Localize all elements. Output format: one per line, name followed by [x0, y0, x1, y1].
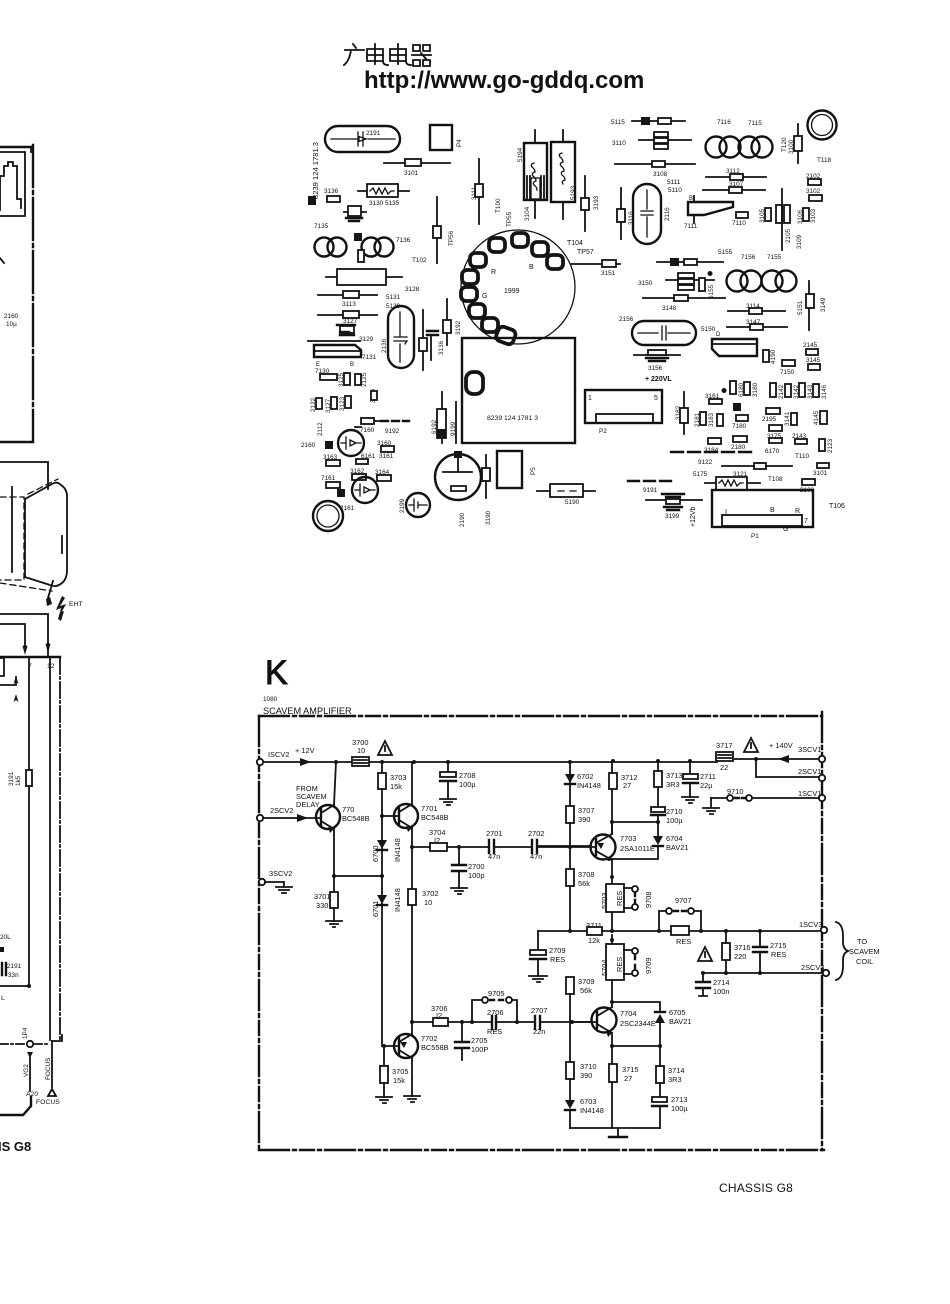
- svg-text:2711: 2711: [700, 772, 716, 781]
- capacitor 2710 100u: [651, 807, 665, 812]
- capacitor 2711 22u: [689, 761, 691, 797]
- resistor on vertical wire: [422, 310, 424, 370]
- svg-text:2700: 2700: [468, 862, 484, 871]
- svg-text:2SCV2: 2SCV2: [270, 806, 293, 815]
- svg-text:IN4148: IN4148: [393, 838, 402, 862]
- capacitor 2191 symbol: [331, 132, 395, 146]
- transistor pads 7116: [706, 137, 727, 158]
- junction dots on rail: [334, 760, 338, 764]
- svg-text:3101: 3101: [404, 170, 419, 177]
- connector P1: [712, 490, 813, 527]
- socket top edge: [0, 656, 60, 658]
- diode 5190: [537, 490, 595, 492]
- collector tie: [612, 821, 658, 823]
- svg-text:3108: 3108: [653, 171, 668, 178]
- EHT lightning bolt: [56, 596, 66, 621]
- svg-text:5111: 5111: [667, 179, 681, 186]
- svg-text:100n: 100n: [713, 987, 729, 996]
- coil 5194: [534, 130, 536, 218]
- svg-text:I: I: [725, 509, 727, 516]
- focus wire: [51, 1041, 53, 1087]
- +12V rail: [262, 759, 819, 762]
- module border bottom: [259, 1149, 828, 1151]
- corner wire to chassis: [0, 1097, 31, 1115]
- svg-text:BC558B: BC558B: [421, 1043, 449, 1052]
- wire stub lines below box: [0, 462, 48, 489]
- svg-text:TP55: TP55: [506, 211, 513, 227]
- svg-text:15k: 15k: [393, 1076, 405, 1085]
- svg-text:2702: 2702: [528, 829, 544, 838]
- svg-text:3128: 3128: [405, 286, 420, 293]
- module border right: [821, 712, 823, 1150]
- svg-text:B: B: [529, 264, 534, 271]
- module border left: [258, 716, 260, 1150]
- capacitor can 2190: [435, 454, 481, 500]
- EHT arrow tip: [46, 597, 52, 606]
- svg-text:3101: 3101: [813, 470, 828, 477]
- svg-text:3193: 3193: [593, 195, 600, 210]
- svg-text:3702: 3702: [422, 889, 438, 898]
- G1 arrowhead: [14, 676, 19, 684]
- svg-text:T120: T120: [781, 137, 788, 152]
- wire to 2SCV1: [756, 759, 819, 777]
- svg-text:2707: 2707: [531, 1006, 547, 1015]
- svg-text:2715: 2715: [770, 941, 786, 950]
- resistor 6155: [699, 278, 705, 291]
- svg-text:SCAVEM: SCAVEM: [849, 947, 880, 956]
- IC 3128: [326, 276, 402, 278]
- EHT lead wire: [48, 581, 53, 598]
- svg-text:33n: 33n: [8, 972, 19, 979]
- resistor 3705 15k: [383, 1046, 385, 1097]
- transistor pads 7155: [762, 271, 783, 292]
- resistor 3701 330: [333, 876, 335, 921]
- capacitor 2715 RES: [759, 931, 761, 973]
- svg-text:DELAY: DELAY: [296, 800, 320, 809]
- svg-text:3192: 3192: [455, 320, 462, 335]
- svg-text:7116: 7116: [717, 119, 731, 126]
- svg-text:COIL: COIL: [856, 957, 873, 966]
- svg-text:2195: 2195: [762, 416, 777, 423]
- capacitor 2714 100n: [699, 973, 707, 996]
- resistor 3103: [803, 208, 809, 221]
- transistor pads 7115: [739, 137, 760, 158]
- svg-text:7161: 7161: [321, 475, 336, 482]
- svg-text:2116: 2116: [664, 207, 671, 221]
- resistor 3714 3R3: [659, 1046, 661, 1098]
- ground 3705: [376, 1097, 392, 1103]
- svg-text:7111: 7111: [684, 223, 698, 230]
- svg-text:3151: 3151: [601, 270, 616, 277]
- svg-text:2706: 2706: [487, 1008, 503, 1017]
- transistor 770 BC548B: [316, 805, 340, 829]
- 广: [344, 44, 364, 65]
- capacitor 2191 33n: [2, 963, 6, 975]
- svg-text:R: R: [491, 269, 496, 276]
- G2 stub arrowhead: [14, 694, 19, 710]
- svg-text:47n: 47n: [488, 852, 500, 861]
- svg-text:3713: 3713: [666, 771, 682, 780]
- resistor 3716 220: [725, 931, 727, 973]
- svg-text:IN4148: IN4148: [580, 1106, 604, 1115]
- svg-text:7701: 7701: [421, 804, 437, 813]
- svg-text:3156: 3156: [648, 365, 663, 372]
- jumper 9122: [671, 451, 751, 453]
- svg-text:22µ: 22µ: [700, 781, 713, 790]
- resistor 7110: [736, 212, 748, 218]
- jumper 9192: [381, 420, 409, 422]
- capacitor 2136: [388, 306, 414, 368]
- svg-text:BAV21: BAV21: [666, 843, 688, 852]
- VG2 arrow: [27, 1048, 33, 1058]
- svg-text:3116: 3116: [628, 211, 635, 225]
- capacitor can 2160: [338, 430, 364, 456]
- pin arrow 7: [23, 645, 28, 655]
- resistor 3151: [571, 263, 620, 265]
- resistor RES series: [671, 926, 689, 935]
- svg-text:100P: 100P: [471, 1045, 488, 1054]
- base wire with arrow: [263, 817, 321, 819]
- svg-text:6192: 6192: [431, 419, 438, 434]
- svg-text:RES: RES: [487, 1027, 502, 1036]
- trimmer 5704 with jumper 9709: [606, 944, 624, 980]
- black pad: [354, 233, 362, 241]
- svg-text:330: 330: [316, 901, 328, 910]
- capacitor 2705 100P: [461, 1022, 463, 1060]
- svg-text:P5: P5: [530, 467, 537, 475]
- wire to junction: [0, 985, 29, 987]
- svg-text:2125: 2125: [361, 372, 368, 387]
- jumper 9191: [628, 480, 671, 482]
- capacitor 2707 22n: [535, 1016, 540, 1029]
- svg-text:5175: 5175: [693, 471, 708, 478]
- svg-text:2SC2344E: 2SC2344E: [620, 1019, 656, 1028]
- svg-text:VG2: VG2: [23, 1064, 30, 1077]
- svg-text:8239 124 1781 3: 8239 124 1781 3: [487, 415, 538, 422]
- svg-text:+ 220VL: + 220VL: [645, 376, 672, 383]
- svg-text:5: 5: [654, 395, 658, 402]
- feedback wire 3711: [538, 930, 820, 932]
- svg-text:3707: 3707: [578, 806, 594, 815]
- capacitor 2700 100p: [458, 847, 460, 888]
- capacitor 2191 oval footprint: [325, 126, 400, 152]
- transistor 7703 2SA1011E: [591, 835, 616, 860]
- svg-text:1k5: 1k5: [15, 775, 22, 786]
- svg-text:G: G: [482, 293, 487, 300]
- ground 3701: [326, 921, 342, 927]
- svg-text:5190: 5190: [565, 499, 580, 506]
- svg-text:2710: 2710: [666, 807, 682, 816]
- resistor 3192: [446, 299, 448, 345]
- svg-text:2191: 2191: [366, 130, 381, 137]
- svg-text:2160: 2160: [301, 442, 316, 449]
- pin arrow 12: [46, 643, 51, 653]
- coil 5193: [562, 130, 564, 219]
- svg-text:3104: 3104: [524, 206, 531, 221]
- svg-text:7156: 7156: [741, 254, 756, 261]
- node 2SCV2: [257, 815, 263, 821]
- svg-text:3145: 3145: [806, 357, 821, 364]
- svg-text:P1: P1: [751, 533, 759, 540]
- resistor 3715 27: [611, 1046, 613, 1128]
- node 3SCV1: [819, 756, 825, 762]
- svg-text:+12Vb: +12Vb: [690, 506, 697, 527]
- svg-text:4190: 4190: [770, 349, 777, 364]
- svg-text:220: 220: [734, 952, 746, 961]
- svg-text:ISCV2: ISCV2: [268, 750, 289, 759]
- svg-text:6155: 6155: [708, 284, 715, 299]
- ground 7702: [404, 1096, 420, 1102]
- svg-text:47n: 47n: [530, 852, 542, 861]
- svg-text:5131: 5131: [386, 294, 401, 301]
- svg-text:3102: 3102: [806, 188, 821, 195]
- svg-text:CHASSIS G8: CHASSIS G8: [719, 1181, 793, 1195]
- svg-text:3136: 3136: [324, 188, 339, 195]
- svg-text:1P4: 1P4: [22, 1027, 29, 1039]
- svg-text:9707: 9707: [675, 896, 691, 905]
- diode 6703 IN4148: [565, 1100, 575, 1109]
- mounting ring: [313, 501, 343, 531]
- resistor 3710 390: [569, 994, 571, 1100]
- trimmer under 3127: [337, 324, 355, 326]
- resistor 3709 56k: [566, 977, 574, 994]
- black pad: [733, 403, 741, 411]
- resistor 3130 5135: [358, 190, 409, 192]
- svg-text:5110: 5110: [668, 187, 682, 194]
- svg-text:100p: 100p: [468, 871, 484, 880]
- svg-text:56k: 56k: [580, 986, 592, 995]
- junction signal: [568, 845, 572, 849]
- svg-text:IN4148: IN4148: [577, 781, 601, 790]
- svg-text:RES: RES: [550, 955, 565, 964]
- resistor 3127: [318, 314, 377, 316]
- wire: [781, 189, 783, 250]
- pin 12 wire: [49, 658, 51, 1040]
- signal wire: [412, 1021, 592, 1023]
- svg-text:3180: 3180: [752, 382, 759, 397]
- svg-text:1SCV1: 1SCV1: [798, 789, 821, 798]
- resistor 3703 15k: [381, 762, 383, 810]
- svg-text:3710: 3710: [580, 1062, 596, 1071]
- svg-text:T104: T104: [567, 240, 583, 247]
- svg-text:5194: 5194: [517, 147, 524, 162]
- svg-text:RES: RES: [615, 957, 624, 972]
- svg-text:10µ: 10µ: [6, 321, 17, 328]
- transistor 7701 BC548B: [394, 804, 418, 828]
- svg-text:3130 5135: 3130 5135: [369, 200, 400, 207]
- resistor 3101: [384, 162, 450, 164]
- jumper 3136b: [427, 331, 438, 335]
- transistor 7702 BC558B: [394, 1034, 418, 1058]
- svg-text:3110: 3110: [612, 140, 626, 147]
- emitter tie wire: [334, 875, 382, 877]
- svg-text:EHT: EHT: [69, 601, 83, 608]
- svg-text:P2: P2: [599, 428, 607, 435]
- svg-text:RES: RES: [676, 937, 691, 946]
- svg-text:3148: 3148: [662, 305, 677, 312]
- svg-text:7110: 7110: [732, 220, 746, 227]
- svg-text:5155: 5155: [718, 249, 733, 256]
- diode 6704 BAV21: [653, 836, 663, 845]
- svg-text:TP56: TP56: [448, 230, 455, 246]
- resistor 3108: [615, 163, 695, 165]
- svg-text:770: 770: [342, 805, 354, 814]
- svg-text:9708: 9708: [644, 892, 653, 908]
- svg-text:7115: 7115: [748, 120, 762, 127]
- resistors 3106 pair: [776, 205, 782, 223]
- resistor 3707 390: [566, 806, 574, 823]
- svg-text:TP57: TP57: [577, 249, 594, 256]
- svg-text:3703: 3703: [390, 773, 406, 782]
- CRT socket circle 1999: [461, 230, 575, 344]
- 器: [412, 45, 431, 66]
- svg-text:SCAVEM AMPLIFIER: SCAVEM AMPLIFIER: [263, 706, 352, 716]
- svg-text:27: 27: [623, 781, 631, 790]
- svg-text:3183: 3183: [708, 412, 715, 427]
- svg-text:T102: T102: [412, 257, 427, 264]
- svg-text:2145: 2145: [803, 342, 818, 349]
- svg-text:6705: 6705: [669, 1008, 685, 1017]
- svg-text:3103: 3103: [810, 208, 817, 223]
- CRT yoke dashed block: [0, 497, 24, 580]
- capacitor 2708 100u: [447, 762, 449, 799]
- svg-text:3714: 3714: [668, 1066, 684, 1075]
- svg-text:BC548B: BC548B: [421, 813, 449, 822]
- svg-text:K: K: [265, 654, 288, 692]
- svg-text:G: G: [783, 526, 788, 533]
- svg-text:2142: 2142: [778, 384, 785, 399]
- warning triangle: [698, 947, 712, 961]
- junction dot: [27, 984, 31, 988]
- grid G1 stub wire: [0, 677, 16, 685]
- warning triangle: [744, 738, 758, 752]
- svg-text:390: 390: [578, 815, 590, 824]
- jumper pad: [358, 250, 364, 262]
- diode 6705 BAV21: [612, 1002, 660, 1046]
- svg-text:20L: 20L: [0, 934, 11, 941]
- diode 6700 IN4148: [381, 810, 383, 876]
- 电: [390, 44, 411, 65]
- connector P4: [430, 125, 452, 150]
- svg-text:5193: 5193: [570, 185, 577, 200]
- resistor 3116: [620, 188, 622, 239]
- module border top: [259, 715, 822, 717]
- svg-text:2709: 2709: [549, 946, 565, 955]
- svg-text:TO: TO: [857, 937, 867, 946]
- CRT base connector outline: [0, 614, 48, 656]
- electrolytic 6192: [441, 392, 443, 443]
- transistor 7111: [688, 202, 733, 215]
- resistor 3708 56k: [566, 869, 574, 886]
- svg-text:9709: 9709: [644, 958, 653, 974]
- svg-text:IS G8: IS G8: [0, 1139, 31, 1154]
- svg-text:3141: 3141: [784, 411, 791, 426]
- svg-text:T118: T118: [817, 157, 832, 164]
- svg-text:5151: 5151: [797, 300, 804, 315]
- warning triangle: [378, 741, 392, 755]
- svg-text:2190: 2190: [459, 512, 466, 527]
- svg-text:B: B: [770, 507, 775, 514]
- svg-text:2160: 2160: [4, 313, 19, 320]
- svg-text:B: B: [350, 362, 354, 368]
- svg-text:2713: 2713: [671, 1095, 687, 1104]
- black pad: [325, 441, 333, 449]
- resistor 3191: [26, 770, 32, 786]
- diode 6702 IN4148: [569, 762, 571, 806]
- svg-text:L: L: [1, 995, 5, 1002]
- svg-text:2SA1011E: 2SA1011E: [620, 844, 655, 853]
- coil 3156: [634, 354, 680, 356]
- svg-text:2191: 2191: [7, 963, 22, 970]
- transistor 7704 2SC2344E: [592, 1008, 617, 1033]
- svg-text:7: 7: [804, 518, 808, 525]
- svg-text:3708: 3708: [578, 870, 594, 879]
- svg-text:2714: 2714: [713, 978, 729, 987]
- svg-text:3715: 3715: [622, 1065, 638, 1074]
- node 1SCV1: [819, 795, 825, 801]
- svg-text:RES: RES: [771, 950, 786, 959]
- svg-text:56k: 56k: [578, 879, 590, 888]
- svg-text:2112: 2112: [317, 422, 324, 436]
- svg-text:100µ: 100µ: [671, 1104, 688, 1113]
- resistor 3190: [485, 455, 487, 498]
- ground 9710: [703, 798, 719, 814]
- svg-text:2105: 2105: [785, 228, 792, 243]
- svg-text:7703: 7703: [620, 834, 636, 843]
- svg-text:22: 22: [720, 763, 728, 772]
- connector P2: [585, 390, 662, 423]
- svg-text:100µ: 100µ: [459, 780, 476, 789]
- svg-text:3150: 3150: [638, 280, 653, 287]
- diode 6701 IN4148: [381, 876, 383, 1046]
- capacitor 2702 47n: [532, 840, 537, 853]
- node circle VG2: [27, 1041, 33, 1047]
- svg-text:3709: 3709: [578, 977, 594, 986]
- node 1SCV3: [821, 927, 827, 933]
- svg-text:1080: 1080: [263, 696, 278, 703]
- svg-text:9192: 9192: [385, 428, 400, 435]
- svg-text:10: 10: [357, 746, 365, 755]
- svg-text:3190: 3190: [485, 510, 492, 525]
- svg-text:T100: T100: [495, 198, 502, 213]
- transistor pads 7156: [727, 271, 748, 292]
- svg-text:2136: 2136: [381, 338, 388, 353]
- svg-text:7136: 7136: [396, 237, 411, 244]
- svg-text:6704: 6704: [666, 834, 682, 843]
- resistor 3713 3R3: [657, 761, 659, 806]
- small trimmer footprint: [344, 211, 366, 213]
- svg-text:9705: 9705: [488, 989, 504, 998]
- inner block outline: [0, 152, 25, 216]
- svg-text:2701: 2701: [486, 829, 502, 838]
- ground 3SCV2: [265, 882, 292, 893]
- svg-text:7155: 7155: [767, 254, 782, 261]
- svg-text:3146: 3146: [821, 384, 828, 399]
- svg-text:D: D: [716, 332, 721, 338]
- svg-text:3SCV2: 3SCV2: [269, 869, 292, 878]
- svg-text:5150: 5150: [701, 326, 716, 333]
- mounting ring T118: [808, 111, 837, 140]
- svg-text:7160: 7160: [360, 427, 375, 434]
- dash-dot tie line: [0, 1043, 48, 1045]
- svg-text:+ 12V: + 12V: [295, 746, 315, 755]
- boundary dash-dot vertical: [59, 658, 61, 1040]
- rail arrow: [300, 758, 311, 766]
- transistor pads 7136: [362, 238, 381, 257]
- svg-text:3191: 3191: [8, 771, 15, 786]
- svg-text:FOCUS: FOCUS: [45, 1058, 52, 1080]
- svg-text:T108: T108: [768, 476, 783, 483]
